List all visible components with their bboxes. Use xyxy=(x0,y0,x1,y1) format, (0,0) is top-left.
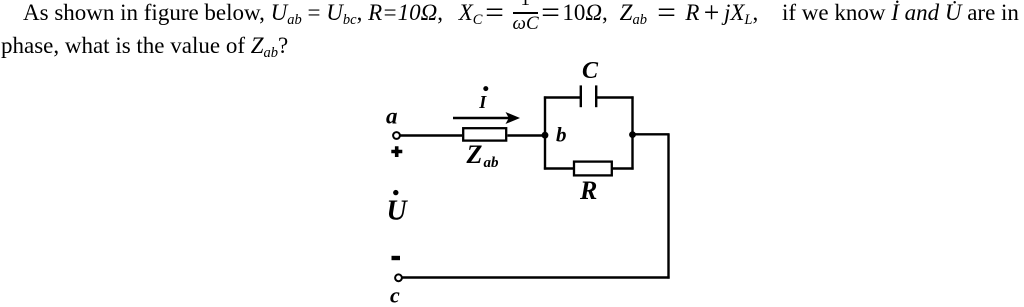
node c terminal circle xyxy=(395,274,402,281)
label a xyxy=(386,104,398,129)
label R xyxy=(579,176,597,205)
node a terminal circle xyxy=(393,132,400,139)
label c xyxy=(390,283,400,307)
problem text line 2 xyxy=(1,33,288,59)
wire right node to right rail xyxy=(633,133,670,135)
svg-text:c: c xyxy=(390,283,400,307)
parallel section right vertical wire xyxy=(631,96,633,169)
source label U dot xyxy=(393,190,398,195)
bottom branch wire left of resistor xyxy=(544,167,574,169)
problem text line 1 xyxy=(0,0,1019,26)
current label I dot xyxy=(483,86,488,91)
svg-text:Z: Z xyxy=(466,140,483,169)
parallel section left vertical wire xyxy=(544,96,546,169)
label Zab xyxy=(466,140,500,171)
label b xyxy=(556,123,567,147)
svg-text:U: U xyxy=(387,196,409,227)
bottom branch wire right of resistor xyxy=(612,167,634,169)
plus sign xyxy=(391,146,402,157)
minus sign xyxy=(392,256,401,260)
capacitor C plates xyxy=(581,85,596,107)
wire a to Zab box xyxy=(400,134,462,136)
right node junction dot xyxy=(629,131,636,138)
label C xyxy=(582,58,599,84)
top branch wire left of capacitor xyxy=(544,96,581,98)
top branch wire right of capacitor xyxy=(596,96,633,98)
right rail vertical wire xyxy=(667,134,669,278)
current arrow xyxy=(453,112,520,124)
bottom return wire to c xyxy=(402,276,670,278)
wire Zab box to node b xyxy=(508,134,547,136)
svg-text:a: a xyxy=(386,104,398,129)
svg-text:I: I xyxy=(478,92,487,112)
resistor R box xyxy=(574,162,612,176)
current label I xyxy=(478,92,487,112)
svg-text:R: R xyxy=(579,176,597,205)
impedance box Zab xyxy=(463,128,506,140)
svg-text:ab: ab xyxy=(484,155,500,171)
svg-text:C: C xyxy=(582,58,599,84)
svg-text:b: b xyxy=(556,123,567,147)
source label U xyxy=(387,196,409,227)
node b junction dot xyxy=(542,132,549,139)
